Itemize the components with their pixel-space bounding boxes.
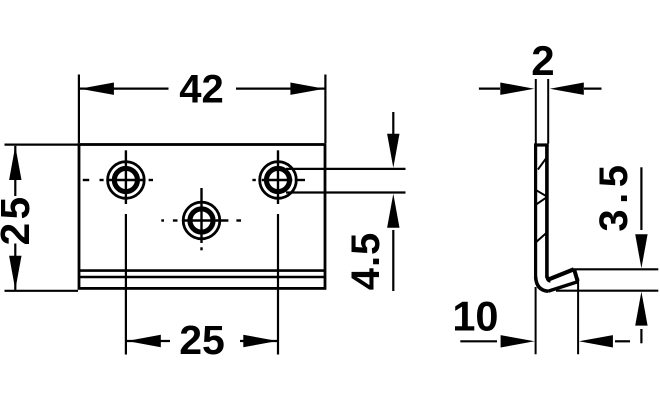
dimension 25 bottom line right segment	[240, 340, 277, 342]
dimension 10 arrow right	[579, 335, 613, 347]
svg-text:2: 2	[531, 37, 554, 84]
dimension 4.5 line upper segment	[392, 112, 394, 140]
hole H2 vertical centerline	[277, 150, 279, 204]
bend line lower	[79, 276, 325, 279]
dimension 3.5 line upper segment	[640, 167, 642, 230]
svg-text:10: 10	[452, 292, 498, 339]
svg-text:3.5: 3.5	[592, 160, 636, 232]
dimension 3.5 extension line top	[573, 268, 659, 270]
dimension 25 left extension line top	[5, 144, 79, 146]
dimension 25 left line lower segment	[14, 244, 16, 290]
dimension 25 left extension line bottom	[5, 290, 79, 292]
dimension 42 arrow right	[290, 83, 324, 95]
dimension 10 extension line left	[535, 287, 537, 354]
side view leg top cap	[534, 143, 549, 146]
dimension 4.5 line lower segment	[392, 230, 394, 291]
dimension 10 line right segment	[615, 340, 630, 342]
dimension 2 extension line left	[535, 79, 537, 144]
dimension 10 arrow left	[501, 335, 535, 347]
dimension 25 bottom arrow left	[127, 335, 161, 347]
hole H2 horizontal centerline	[252, 179, 305, 181]
side view hatch chevron bottom arm	[536, 197, 547, 205]
side view leg left face	[534, 145, 537, 277]
dimension 4.5 tangent line top	[286, 168, 406, 170]
dimension 42 line left segment	[79, 87, 168, 89]
side view flange top surface	[549, 269, 574, 279]
hole H2 extension line down	[277, 214, 279, 355]
dimension 42 line right segment	[236, 87, 325, 89]
front view plate outline	[79, 145, 325, 289]
side view flange tip face	[574, 269, 578, 281]
dimension 4.5 arrow down	[387, 134, 399, 168]
dimension 25 left line upper segment	[14, 146, 16, 196]
dimension 10 line left segment	[460, 340, 497, 342]
dimension 4.5 tangent line bottom	[286, 191, 406, 193]
side view leg right face	[545, 145, 549, 278]
dimension 25 left arrow down	[9, 256, 21, 290]
hole H1 thread ring	[114, 168, 137, 191]
dimension 42 arrow left	[80, 83, 114, 95]
dimension 3.5 arrow down	[635, 234, 647, 268]
hole H1 extension line down	[125, 214, 127, 355]
hole H1 vertical centerline	[125, 150, 127, 204]
hole H3 thread ring	[190, 209, 213, 232]
dimension 42 extension line left	[78, 75, 80, 144]
bend line upper	[79, 269, 325, 272]
dimension 2 arrow right	[550, 83, 584, 95]
dimension 2 arrow left	[500, 83, 534, 95]
svg-text:42: 42	[179, 67, 224, 111]
hole H3 horizontal centerline	[161, 219, 241, 221]
hole H2 thread ring	[266, 168, 289, 191]
dimension 25 bottom line left segment	[127, 340, 170, 342]
side view outer bend curve	[536, 277, 548, 292]
dimension 2 extension line right	[547, 79, 549, 144]
side view hatch chevron top arm	[536, 190, 547, 197]
svg-text:4.5: 4.5	[344, 232, 388, 291]
dimension 25 left arrow up	[9, 146, 21, 180]
hole H2 (top-right) outer circle	[260, 162, 297, 199]
side view hatch mark 2	[536, 232, 548, 242]
dimension 4.5 arrow up	[387, 194, 399, 228]
dimension 2 line left segment	[479, 87, 500, 89]
hole H3 (middle) outer circle	[183, 202, 220, 239]
dimension 25 bottom arrow right	[243, 335, 277, 347]
dimension 3.5 arrow up	[635, 292, 647, 326]
side view flange bottom surface	[548, 282, 578, 291]
dimension 2 line right segment	[584, 87, 602, 89]
dimension 42 extension line right	[324, 75, 326, 144]
dimension 3.5 line lower segment	[640, 329, 642, 343]
hole H1 horizontal centerline	[83, 179, 153, 181]
hole H3 vertical centerline	[200, 188, 202, 250]
svg-text:25: 25	[179, 317, 225, 363]
side view inner bend corner	[547, 276, 551, 281]
dimension 3.5 extension line bottom	[556, 290, 658, 292]
dimension 10 extension line right	[577, 278, 579, 354]
side view hatch mark 1	[538, 158, 546, 169]
svg-text:25: 25	[0, 193, 38, 245]
hole H1 (top-left) outer circle	[108, 162, 145, 199]
